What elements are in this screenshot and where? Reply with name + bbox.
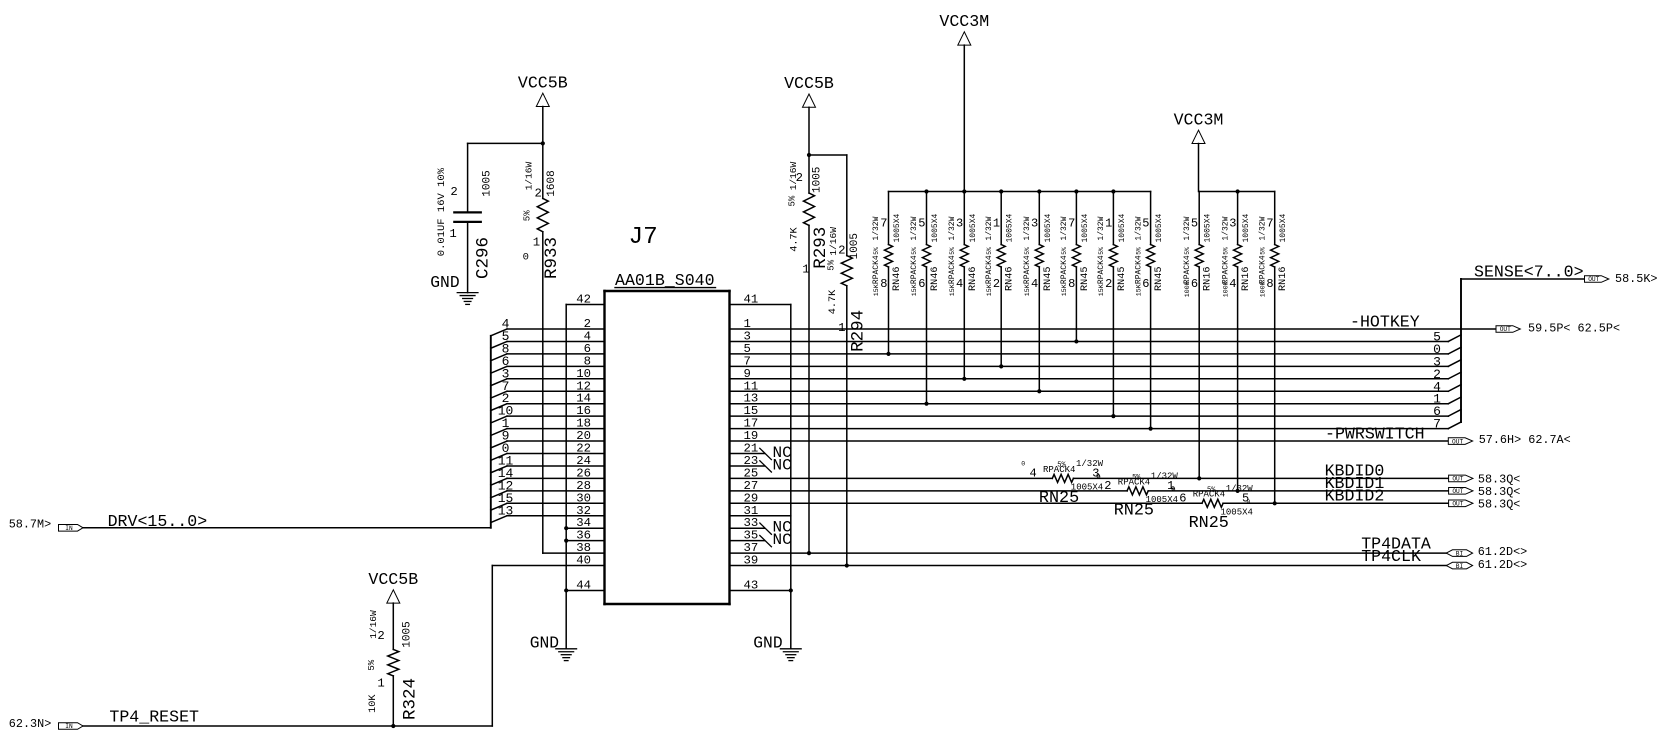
svg-text:-PWRSWITCH: -PWRSWITCH <box>1325 424 1425 443</box>
svg-text:100K: 100K <box>1184 281 1191 297</box>
svg-text:5%: 5% <box>1184 247 1191 255</box>
svg-text:7: 7 <box>1266 216 1273 230</box>
svg-text:1005X4: 1005X4 <box>893 213 902 242</box>
svg-text:39: 39 <box>744 554 759 568</box>
svg-text:4.7K: 4.7K <box>789 226 800 251</box>
svg-text:2: 2 <box>1105 277 1112 291</box>
svg-text:4: 4 <box>1031 277 1038 291</box>
svg-text:5%: 5% <box>1061 247 1068 255</box>
svg-text:6: 6 <box>1179 491 1186 505</box>
svg-text:R324: R324 <box>401 678 421 720</box>
svg-text:OUT: OUT <box>1452 488 1463 495</box>
svg-text:2: 2 <box>796 171 803 185</box>
svg-text:3: 3 <box>956 216 963 230</box>
svg-text:1: 1 <box>802 263 809 277</box>
svg-text:VCC3M: VCC3M <box>939 12 989 31</box>
svg-text:1: 1 <box>533 236 540 250</box>
svg-text:5%: 5% <box>1259 247 1266 255</box>
svg-text:0: 0 <box>1247 499 1251 506</box>
svg-text:5%: 5% <box>911 247 918 255</box>
svg-text:62.3N>: 62.3N> <box>9 717 51 731</box>
svg-text:2: 2 <box>838 244 845 258</box>
svg-text:RN45: RN45 <box>1080 267 1091 291</box>
svg-text:15K: 15K <box>986 284 993 296</box>
svg-text:5: 5 <box>1142 216 1149 230</box>
svg-text:GND: GND <box>530 634 559 653</box>
svg-text:5%: 5% <box>367 659 377 670</box>
svg-text:1005X4: 1005X4 <box>1279 213 1288 242</box>
svg-text:58.3Q<: 58.3Q< <box>1478 497 1520 511</box>
svg-text:R933: R933 <box>542 237 562 279</box>
svg-text:GND: GND <box>430 273 459 292</box>
svg-text:RN46: RN46 <box>892 267 903 291</box>
svg-text:0: 0 <box>523 252 529 264</box>
svg-text:5%: 5% <box>1222 247 1229 255</box>
svg-text:IN: IN <box>65 525 73 532</box>
svg-text:15K: 15K <box>1135 284 1142 296</box>
svg-text:RN46: RN46 <box>968 267 979 291</box>
svg-text:-HOTKEY: -HOTKEY <box>1350 313 1420 332</box>
svg-text:RN45: RN45 <box>1154 267 1165 291</box>
svg-text:IN: IN <box>65 723 73 730</box>
svg-text:2: 2 <box>377 629 384 643</box>
svg-text:1: 1 <box>449 227 456 241</box>
svg-text:7: 7 <box>1068 216 1075 230</box>
svg-text:OUT: OUT <box>1588 276 1599 283</box>
svg-text:C296: C296 <box>474 237 494 279</box>
svg-text:15K: 15K <box>911 284 918 296</box>
svg-text:4.7K: 4.7K <box>828 289 839 314</box>
svg-text:5: 5 <box>918 216 925 230</box>
svg-text:2: 2 <box>450 185 457 199</box>
svg-text:6: 6 <box>918 277 925 291</box>
svg-text:5%: 5% <box>1024 247 1031 255</box>
svg-text:10K: 10K <box>368 694 379 713</box>
svg-text:RN45: RN45 <box>1117 267 1128 291</box>
svg-text:2: 2 <box>993 277 1000 291</box>
svg-text:RN16: RN16 <box>1241 267 1252 291</box>
svg-text:1005X4: 1005X4 <box>1081 213 1090 242</box>
svg-text:5%: 5% <box>873 247 880 255</box>
svg-text:RN25: RN25 <box>1039 489 1079 508</box>
svg-text:6: 6 <box>1191 277 1198 291</box>
svg-text:1005X4: 1005X4 <box>969 213 978 242</box>
svg-text:2: 2 <box>1104 479 1111 493</box>
svg-text:1005X4: 1005X4 <box>931 213 940 242</box>
svg-text:RN45: RN45 <box>1043 267 1054 291</box>
svg-text:KBDID2: KBDID2 <box>1325 486 1385 505</box>
svg-text:OUT: OUT <box>1452 501 1463 508</box>
svg-text:1: 1 <box>1105 216 1112 230</box>
svg-text:5%: 5% <box>1098 247 1105 255</box>
svg-text:BI: BI <box>1456 550 1464 557</box>
svg-text:R294: R294 <box>849 310 869 352</box>
svg-text:AA01B_S040: AA01B_S040 <box>615 271 715 290</box>
svg-text:VCC5B: VCC5B <box>784 74 834 93</box>
svg-text:8: 8 <box>880 277 887 291</box>
svg-text:RN46: RN46 <box>930 267 941 291</box>
svg-text:44: 44 <box>576 578 591 592</box>
svg-text:61.2D<>: 61.2D<> <box>1478 558 1528 572</box>
svg-text:5%: 5% <box>1057 462 1066 470</box>
svg-text:RN16: RN16 <box>1203 267 1214 291</box>
svg-text:1005X4: 1005X4 <box>1155 213 1164 242</box>
svg-text:OUT: OUT <box>1452 438 1463 445</box>
svg-text:15K: 15K <box>1024 284 1031 296</box>
svg-text:OUT: OUT <box>1500 326 1511 333</box>
svg-text:1005X4: 1005X4 <box>1044 213 1053 242</box>
svg-text:7: 7 <box>1433 417 1441 432</box>
svg-text:VCC5B: VCC5B <box>518 73 568 92</box>
svg-text:TP4CLK: TP4CLK <box>1361 547 1421 566</box>
svg-text:RN25: RN25 <box>1114 502 1154 521</box>
svg-text:4: 4 <box>1229 277 1236 291</box>
svg-text:1005: 1005 <box>481 170 493 196</box>
svg-text:RN46: RN46 <box>1005 267 1016 291</box>
svg-text:1/16W: 1/16W <box>523 161 534 190</box>
svg-text:57.6H> 62.7A<: 57.6H> 62.7A< <box>1479 433 1571 447</box>
svg-text:1: 1 <box>993 216 1000 230</box>
svg-text:100K: 100K <box>1259 281 1266 297</box>
svg-text:15K: 15K <box>1098 284 1105 296</box>
svg-text:5%: 5% <box>1135 247 1142 255</box>
svg-text:15K: 15K <box>873 284 880 296</box>
svg-text:OUT: OUT <box>1452 476 1463 483</box>
svg-text:0: 0 <box>1171 485 1175 492</box>
svg-text:1005X4: 1005X4 <box>1242 213 1251 242</box>
svg-text:NC: NC <box>773 456 792 474</box>
svg-text:1005X4: 1005X4 <box>1118 213 1127 242</box>
svg-text:8: 8 <box>1266 277 1273 291</box>
svg-text:TP4_RESET: TP4_RESET <box>109 708 199 727</box>
svg-text:VCC3M: VCC3M <box>1174 110 1224 129</box>
svg-text:0: 0 <box>1096 473 1100 480</box>
svg-text:40: 40 <box>576 554 591 568</box>
svg-text:41: 41 <box>744 293 759 307</box>
svg-text:1005X4: 1005X4 <box>1006 213 1015 242</box>
svg-text:GND: GND <box>753 634 782 653</box>
svg-text:5%: 5% <box>523 210 533 221</box>
svg-text:5%: 5% <box>788 195 798 206</box>
svg-text:5%: 5% <box>826 259 836 270</box>
svg-text:5: 5 <box>1191 216 1198 230</box>
svg-text:1: 1 <box>377 677 384 691</box>
svg-text:1: 1 <box>838 321 845 335</box>
svg-text:DRV<15..0>: DRV<15..0> <box>108 512 208 531</box>
svg-text:RN25: RN25 <box>1189 514 1229 533</box>
svg-text:5%: 5% <box>1132 474 1141 482</box>
svg-text:1608: 1608 <box>546 170 558 196</box>
svg-text:BI: BI <box>1456 563 1464 570</box>
svg-text:59.5P< 62.5P<: 59.5P< 62.5P< <box>1528 322 1620 336</box>
svg-text:100K: 100K <box>1222 281 1229 297</box>
svg-text:0.01UF 16V 10%: 0.01UF 16V 10% <box>436 167 448 256</box>
svg-text:5%: 5% <box>1207 487 1216 495</box>
svg-text:13: 13 <box>498 503 514 518</box>
svg-text:5%: 5% <box>949 247 956 255</box>
svg-text:15K: 15K <box>949 284 956 296</box>
svg-text:NC: NC <box>773 531 792 549</box>
svg-text:58.7M>: 58.7M> <box>9 517 51 531</box>
svg-text:43: 43 <box>744 578 759 592</box>
svg-text:RN16: RN16 <box>1278 267 1289 291</box>
svg-text:2: 2 <box>535 187 542 201</box>
svg-text:5%: 5% <box>986 247 993 255</box>
svg-text:VCC5B: VCC5B <box>368 570 418 589</box>
svg-text:SENSE<7..0>: SENSE<7..0> <box>1474 263 1584 282</box>
svg-text:3: 3 <box>1031 216 1038 230</box>
svg-text:6: 6 <box>1142 277 1149 291</box>
svg-text:15K: 15K <box>1061 284 1068 296</box>
svg-text:1005: 1005 <box>401 621 413 647</box>
svg-text:1005: 1005 <box>812 167 824 193</box>
svg-text:61.2D<>: 61.2D<> <box>1478 545 1528 559</box>
svg-text:58.5K>: 58.5K> <box>1615 272 1657 286</box>
svg-text:8: 8 <box>1068 277 1075 291</box>
svg-text:42: 42 <box>576 293 591 307</box>
svg-text:3: 3 <box>1229 216 1236 230</box>
svg-text:J7: J7 <box>629 224 658 251</box>
svg-text:4: 4 <box>1030 466 1037 480</box>
svg-text:7: 7 <box>880 216 887 230</box>
svg-text:1005X4: 1005X4 <box>1204 213 1213 242</box>
svg-text:0: 0 <box>1021 460 1025 467</box>
svg-text:4: 4 <box>956 277 963 291</box>
svg-text:1005: 1005 <box>849 233 861 259</box>
